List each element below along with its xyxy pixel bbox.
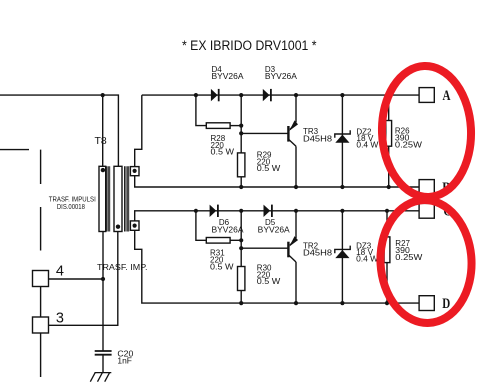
wire rect1 bottom to C20 bbox=[102, 232, 104, 352]
transistor TR3 bbox=[288, 95, 298, 187]
wire C20 to ground bbox=[102, 355, 104, 373]
svg-text:D45H8: D45H8 bbox=[303, 134, 333, 143]
ground bbox=[90, 373, 111, 382]
wire dashed border horizontal bbox=[0, 149, 29, 151]
wire R31 to node bbox=[230, 239, 241, 241]
node R28 junction bbox=[239, 124, 243, 128]
resistor R29 bbox=[238, 153, 245, 177]
node top bus TR3 emitter bbox=[294, 93, 298, 97]
svg-text:0.25W: 0.25W bbox=[395, 141, 423, 150]
pad D square bbox=[419, 296, 434, 311]
wire TR3 base bbox=[241, 132, 288, 134]
zener DZ3 bbox=[335, 211, 350, 303]
node bus3 R31 tap bbox=[194, 209, 198, 213]
wire secondary bottom square to bus3 bbox=[135, 211, 419, 221]
node top bus R28 tap bbox=[194, 93, 198, 97]
svg-text:DIS.00018: DIS.00018 bbox=[57, 204, 85, 211]
svg-text:0.5 W: 0.5 W bbox=[211, 148, 235, 157]
node bus3 TR2 emitter bbox=[294, 209, 298, 213]
transformer T8 primary winding 1 bbox=[99, 166, 106, 231]
svg-text:TRASF. IMP.: TRASF. IMP. bbox=[97, 263, 148, 272]
zener DZ2 bbox=[335, 95, 350, 187]
resistor R26 bbox=[386, 121, 392, 147]
wire main top bus bbox=[142, 94, 419, 96]
diode D5 bbox=[264, 205, 272, 217]
node R30 on bus4 bbox=[239, 301, 243, 305]
wire dashed border vertical bbox=[40, 150, 42, 377]
svg-text:3: 3 bbox=[56, 310, 64, 326]
node bus3 D5 anode bbox=[239, 209, 243, 213]
node R31 junction bbox=[239, 238, 243, 242]
svg-text:BYV26A: BYV26A bbox=[258, 226, 291, 235]
wire R27 bottom bbox=[386, 263, 388, 304]
wire TR2 base bbox=[241, 247, 288, 249]
svg-text:BYV26A: BYV26A bbox=[212, 226, 245, 235]
wire R30 bottom bbox=[240, 291, 242, 304]
node TR2 base junction bbox=[239, 246, 243, 250]
transformer winding1 polarity dot bbox=[101, 168, 105, 172]
node bus3 R27 bbox=[385, 209, 389, 213]
node pin4 junction bbox=[101, 277, 105, 281]
svg-text:0.25W: 0.25W bbox=[395, 253, 423, 262]
svg-text:0.5 W: 0.5 W bbox=[257, 277, 281, 286]
node primary bus junction bbox=[101, 93, 105, 97]
svg-text:1nF: 1nF bbox=[117, 357, 132, 366]
wire D6 bypass vertical bbox=[240, 211, 242, 267]
pad B square bbox=[419, 180, 434, 195]
annotation red ellipse top bbox=[380, 64, 474, 198]
transformer secondary top dot bbox=[133, 169, 137, 173]
node top bus D3 anode bbox=[239, 93, 243, 97]
svg-text:0.5 W: 0.5 W bbox=[210, 262, 234, 271]
transformer secondary bottom square bbox=[130, 221, 139, 230]
node TR2 collector on bus4 bbox=[294, 301, 298, 305]
wire pin3 to transformer bbox=[49, 232, 118, 326]
svg-text:BYV26A: BYV26A bbox=[265, 72, 298, 81]
diode D4 bbox=[211, 89, 219, 101]
pin 4 square bbox=[33, 271, 49, 287]
annotation red ellipse bottom bbox=[377, 198, 474, 326]
node R29 on bus2 bbox=[239, 185, 243, 189]
transformer T8 primary winding 2 bbox=[114, 166, 122, 231]
wire primary top bus bbox=[0, 95, 118, 166]
wire R31 branch bbox=[196, 211, 206, 241]
wire pin4 to node bbox=[49, 278, 104, 280]
resistor R28 bbox=[206, 123, 230, 129]
transformer secondary bottom dot bbox=[133, 224, 137, 228]
node DZ3 on bus4 bbox=[340, 301, 344, 305]
diode D3 bbox=[263, 89, 271, 101]
node TR3 base junction bbox=[239, 131, 243, 135]
transformer winding2 polarity dot bbox=[116, 225, 120, 229]
wire D4 bypass vertical bbox=[240, 95, 242, 153]
wire secondary top lead to main bus bbox=[135, 95, 142, 167]
pad C square bbox=[419, 203, 434, 218]
svg-text:D: D bbox=[442, 296, 450, 312]
svg-text:4: 4 bbox=[56, 264, 64, 280]
transformer core lines right bbox=[125, 166, 129, 231]
node R26 on bus2 bbox=[387, 185, 391, 189]
svg-text:TRASF. IMPULSI: TRASF. IMPULSI bbox=[49, 197, 96, 204]
node top bus R26 bbox=[387, 93, 391, 97]
node TR3 collector on bus2 bbox=[294, 185, 298, 189]
pin 3 square bbox=[33, 317, 49, 333]
svg-text:T8: T8 bbox=[95, 135, 107, 147]
wire secondary top square to bus2 bbox=[135, 176, 419, 187]
svg-text:0.4 W: 0.4 W bbox=[356, 141, 378, 150]
svg-text:0.4 W: 0.4 W bbox=[356, 255, 378, 264]
wire R29 bottom bbox=[240, 177, 242, 187]
wire R28 to node bbox=[230, 125, 241, 127]
wire R27 top bbox=[386, 211, 388, 237]
svg-text:A: A bbox=[443, 88, 451, 104]
wire R28 branch bbox=[196, 95, 206, 126]
pad A square bbox=[419, 88, 434, 103]
node bus3 DZ3 bbox=[340, 209, 344, 213]
diode D6 bbox=[210, 205, 218, 217]
svg-text:* EX IBRIDO DRV1001 *: * EX IBRIDO DRV1001 * bbox=[182, 38, 317, 54]
resistor R31 bbox=[206, 238, 230, 244]
resistor R27 bbox=[384, 237, 390, 263]
node DZ2 on bus2 bbox=[340, 185, 344, 189]
svg-text:D45H8: D45H8 bbox=[303, 249, 333, 258]
wire rect1 top lead bbox=[102, 95, 104, 166]
svg-text:BYV26A: BYV26A bbox=[212, 72, 245, 81]
transformer secondary top square bbox=[130, 167, 139, 176]
node R27 on bus4 bbox=[385, 301, 389, 305]
wire secondary bottom lead to bus4 bbox=[135, 230, 419, 303]
wire R26 top bbox=[388, 95, 390, 120]
transistor TR2 bbox=[288, 211, 298, 303]
svg-text:0.5 W: 0.5 W bbox=[257, 164, 281, 173]
capacitor C20 bbox=[95, 351, 112, 355]
node top bus DZ2 bbox=[340, 93, 344, 97]
wire R26 bottom bbox=[388, 146, 390, 187]
transformer core lines left bbox=[107, 166, 110, 231]
resistor R30 bbox=[238, 267, 245, 291]
